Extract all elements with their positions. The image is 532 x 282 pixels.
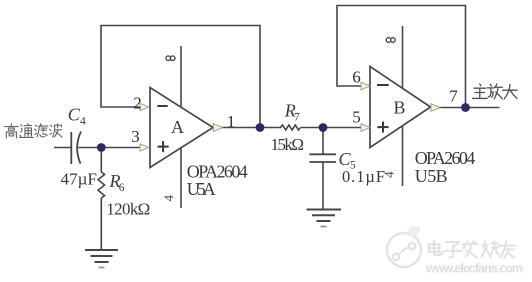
output arrow A <box>214 124 223 132</box>
op-amp U5A supply line pin8 <box>180 46 182 208</box>
svg-text:www.elecfans.com: www.elecfans.com <box>425 262 523 276</box>
svg-text:U5A: U5A <box>187 179 216 199</box>
wire node to C5 <box>322 128 324 155</box>
watermark logo pads <box>393 254 399 260</box>
feedback wire B (output to pin6) <box>337 6 466 108</box>
svg-text:C: C <box>68 105 81 125</box>
node output B <box>461 103 470 112</box>
capacitor C5 <box>310 154 337 162</box>
wire output A <box>221 127 281 129</box>
wire R7 to pin5 <box>301 127 362 129</box>
wire node to R6 <box>100 148 102 173</box>
resistor R7 <box>281 125 301 130</box>
infinity A <box>166 56 175 61</box>
minus A <box>157 105 167 107</box>
svg-text:120kΩ: 120kΩ <box>106 199 150 218</box>
ground (left) <box>85 250 118 268</box>
resistor R6 <box>98 172 105 198</box>
wm char fa <box>463 241 477 257</box>
svg-text:7: 7 <box>449 87 458 106</box>
feedback wire A (output to pin2) <box>101 26 260 128</box>
wm char shao <box>481 241 498 257</box>
pin6 arrow <box>361 82 370 90</box>
label zhufangda (drawn CJK) <box>472 84 517 99</box>
watermark CJK text (drawn) <box>429 241 515 258</box>
plus A <box>158 141 169 152</box>
op-amp U5A triangle <box>150 88 213 168</box>
char gao <box>5 124 19 138</box>
svg-text:4: 4 <box>161 194 176 201</box>
plus B <box>377 122 388 133</box>
char bo <box>50 124 62 137</box>
label gaotonglvbo (drawn CJK) <box>5 124 62 138</box>
node A (C4/R6/pin3 junction) <box>97 143 106 152</box>
char fang <box>487 84 503 99</box>
svg-text:B: B <box>393 98 405 118</box>
op-amp U5B supply line pin8 <box>402 26 404 186</box>
minus B <box>377 84 389 86</box>
wm char zi <box>444 242 461 257</box>
input arrows (pale) <box>140 82 440 151</box>
svg-text:OPA2604: OPA2604 <box>415 148 476 168</box>
svg-text:47µF: 47µF <box>61 170 98 189</box>
watermark logo circle <box>387 233 421 267</box>
pin3 arrow <box>140 144 149 151</box>
node output A <box>256 123 265 132</box>
svg-text:3: 3 <box>131 127 140 146</box>
wm char you <box>499 241 515 258</box>
svg-text:2: 2 <box>133 94 142 113</box>
char tong <box>20 124 34 138</box>
char lv <box>35 124 48 137</box>
wire input to C4 <box>54 147 71 149</box>
infinity B <box>386 38 395 43</box>
svg-text:15kΩ: 15kΩ <box>271 135 305 154</box>
output arrow B <box>431 104 440 112</box>
svg-text:6: 6 <box>119 182 125 194</box>
pin2 arrow <box>140 103 149 110</box>
wm char dian <box>429 241 443 255</box>
char da <box>503 85 518 99</box>
svg-text:0.1µF: 0.1µF <box>342 167 385 186</box>
svg-text:6: 6 <box>352 68 361 87</box>
wire R6 to ground <box>100 198 102 250</box>
node R7/C5 junction <box>319 123 328 132</box>
pin5 arrow <box>361 124 370 132</box>
capacitor C4 <box>71 132 81 165</box>
svg-text:A: A <box>171 117 184 137</box>
svg-text:1: 1 <box>227 112 236 131</box>
wire output B <box>439 107 500 109</box>
char zhu <box>472 84 487 99</box>
watermark logo leaf <box>408 226 420 236</box>
op-amp U5B triangle <box>370 67 431 148</box>
ground (middle) <box>307 210 342 227</box>
svg-text:7: 7 <box>294 112 300 124</box>
svg-text:5: 5 <box>352 108 361 127</box>
wire C5 to ground <box>322 162 324 210</box>
svg-text:4: 4 <box>80 116 86 128</box>
wire C4 to pin3 <box>78 147 141 149</box>
svg-text:U5B: U5B <box>415 166 448 186</box>
